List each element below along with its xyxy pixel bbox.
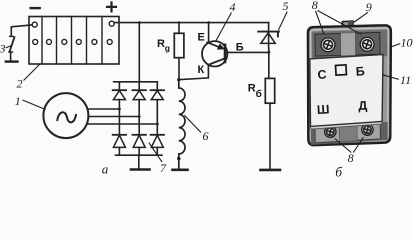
wire Rg top lead bbox=[178, 23, 180, 34]
node phase2 junction bbox=[138, 115, 141, 118]
node rail-Rg junction bbox=[178, 21, 181, 24]
label plus polarity bbox=[107, 2, 116, 11]
svg-text:4: 4 bbox=[230, 0, 236, 14]
transistor VT1 circle bbox=[202, 41, 227, 66]
leader 11 bbox=[383, 75, 399, 80]
device inner bezel bbox=[311, 28, 389, 142]
wire bridge feed bbox=[138, 23, 140, 82]
battery cell separators bbox=[42, 17, 102, 65]
svg-text:g: g bbox=[165, 43, 170, 53]
top strip background bbox=[312, 30, 388, 59]
wire Rg bottom lead bbox=[178, 58, 180, 80]
leader 1 bbox=[23, 100, 46, 110]
regulator device (photo) bbox=[308, 21, 391, 145]
wire switch to ground bbox=[10, 52, 12, 61]
node base-zener junction bbox=[267, 51, 270, 54]
diode VD2 (top middle) bbox=[133, 90, 146, 99]
node rail-bridge junction bbox=[138, 21, 141, 24]
leaders 8 bottom bbox=[335, 137, 364, 152]
wire emitter lead bbox=[208, 23, 210, 41]
svg-text:9: 9 bbox=[366, 0, 372, 14]
device mounting tab 9 bbox=[342, 21, 353, 28]
wire Rb to ground bbox=[269, 103, 271, 169]
wire zener to Rb bbox=[268, 48, 270, 78]
node rail-emitter junction bbox=[207, 21, 210, 24]
svg-text:8: 8 bbox=[312, 0, 318, 12]
zener diode VD7 bbox=[258, 23, 279, 48]
svg-text:8: 8 bbox=[348, 151, 354, 165]
node phase3 junction bbox=[156, 123, 159, 126]
svg-text:6: 6 bbox=[203, 129, 209, 143]
leaders 8 top bbox=[316, 11, 362, 35]
svg-text:б: б bbox=[256, 88, 262, 100]
leader 3 bbox=[6, 46, 11, 48]
transistor emitter arrow bbox=[207, 42, 224, 49]
battery cell circles bbox=[33, 39, 113, 44]
resistor Rb body bbox=[265, 78, 274, 103]
generator G1 circle bbox=[43, 93, 88, 138]
wire phase 1 bbox=[88, 108, 119, 110]
svg-text:б: б bbox=[335, 165, 343, 179]
diode VD3 (top right) bbox=[151, 90, 164, 99]
diode VD6 (bottom right) bbox=[151, 135, 164, 148]
device face plate 11 bbox=[310, 55, 383, 127]
wire battery minus to switch bbox=[11, 25, 32, 36]
battery terminal circle minus bbox=[32, 22, 37, 27]
svg-text:Д: Д bbox=[358, 99, 368, 113]
device bottom strip bbox=[311, 122, 388, 145]
ground under switch bbox=[6, 60, 18, 62]
transistor collector lead bbox=[208, 58, 224, 64]
leader 6 bbox=[184, 115, 201, 132]
wire bridge to ground bbox=[138, 155, 140, 169]
diode VD1 (top left) bbox=[113, 90, 126, 99]
svg-text:Б: Б bbox=[236, 41, 244, 53]
light plate around bottom-right screw bbox=[357, 121, 381, 140]
switch S1 blade bbox=[10, 37, 15, 51]
ground under coil bbox=[173, 169, 188, 172]
wire collector node horizontal bbox=[179, 65, 209, 80]
terminal square window bbox=[336, 65, 347, 75]
svg-text:Е: Е bbox=[198, 32, 205, 44]
wire phase 3 bbox=[88, 123, 157, 125]
svg-text:3: 3 bbox=[0, 42, 6, 56]
screw terminal top-left 8 bbox=[321, 38, 335, 52]
inductor L1 field winding bbox=[179, 80, 185, 169]
node phase1 junction bbox=[118, 108, 121, 111]
terminal plate dark top-left bbox=[315, 34, 341, 57]
device outer case 10 bbox=[308, 25, 391, 145]
wire top rail (battery + to zener) bbox=[114, 22, 268, 24]
battery 2 outline bbox=[29, 17, 119, 65]
node collector-coil junction bbox=[177, 78, 180, 81]
svg-text:К: К bbox=[198, 64, 205, 76]
resistor Rg body bbox=[174, 33, 184, 57]
svg-text:R: R bbox=[248, 83, 256, 95]
svg-text:7: 7 bbox=[160, 161, 167, 175]
svg-text:5: 5 bbox=[283, 0, 289, 13]
bridge bottom rail bbox=[116, 154, 163, 156]
leader 9 bbox=[354, 12, 369, 22]
bridge top rail bbox=[114, 81, 158, 83]
face plate side face (3d thickness) bbox=[311, 121, 383, 129]
leader 10 bbox=[390, 44, 401, 48]
screw terminal bottom-left 8 bbox=[325, 126, 336, 137]
light column between plates bbox=[341, 33, 356, 55]
generator sine symbol bbox=[57, 112, 76, 122]
svg-text:10: 10 bbox=[401, 35, 413, 49]
screw terminal bottom-right 8 bbox=[362, 124, 373, 135]
wire phase 2 bbox=[88, 116, 139, 118]
svg-text:1: 1 bbox=[15, 94, 21, 108]
leader 5 bbox=[278, 12, 287, 31]
screw terminal top-right 8 bbox=[360, 37, 374, 51]
light plate around bottom-left screw bbox=[315, 123, 340, 142]
svg-text:2: 2 bbox=[17, 76, 23, 90]
leader 2 bbox=[24, 65, 40, 81]
bridge anode stubs bottom bbox=[119, 147, 157, 155]
bridge column wires bbox=[119, 100, 157, 135]
node coil bottom bbox=[177, 157, 180, 160]
terminal plate dark top-right bbox=[355, 32, 380, 55]
svg-text:Ш: Ш bbox=[317, 102, 330, 117]
diode VD5 (bottom middle) bbox=[133, 135, 146, 148]
mid column bottom strip bbox=[340, 122, 358, 141]
svg-text:R: R bbox=[157, 38, 165, 50]
battery terminal circle plus bbox=[109, 21, 114, 26]
svg-text:11: 11 bbox=[400, 73, 411, 87]
leader 4 bbox=[216, 13, 232, 41]
bridge cathode stubs top bbox=[119, 82, 157, 90]
ground under Rb bbox=[261, 169, 281, 172]
wire base lead bbox=[226, 51, 268, 53]
switch contact ticks bbox=[9, 36, 13, 52]
svg-text:С: С bbox=[317, 67, 327, 81]
transistor base bar bbox=[224, 45, 227, 62]
svg-text:а: а bbox=[102, 161, 109, 176]
svg-text:Б: Б bbox=[355, 64, 365, 78]
label minus polarity bbox=[31, 7, 40, 9]
leader 7 bbox=[149, 143, 162, 162]
ground under bridge bbox=[131, 168, 150, 171]
diode VD4 (bottom left) bbox=[113, 135, 126, 148]
